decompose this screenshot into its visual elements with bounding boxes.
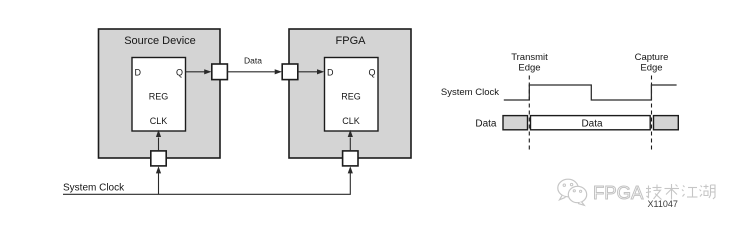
data valid window <box>531 116 651 130</box>
register REG (source) <box>132 58 186 132</box>
watermark text FPGA <box>593 182 644 203</box>
arrow into FPGA clock pad <box>348 166 353 173</box>
svg-text:Data: Data <box>581 118 603 129</box>
System Clock waveform <box>504 85 677 100</box>
svg-text:System Clock: System Clock <box>441 87 499 98</box>
wire clock pad to CLK (FPGA REG) <box>348 130 353 151</box>
figure number X11047 <box>648 199 678 209</box>
dashed marker capture edge <box>651 76 653 153</box>
wire Data between pads <box>227 69 282 74</box>
pin Q (FPGA REG) <box>368 68 375 78</box>
svg-text:Edge: Edge <box>640 63 662 74</box>
wire clock pad to CLK (source REG) <box>156 130 161 151</box>
svg-text:REG: REG <box>341 92 361 102</box>
watermark glyph hu (湖) <box>700 185 716 200</box>
svg-text:FPGA: FPGA <box>336 35 367 47</box>
pin D (source REG) <box>135 68 142 78</box>
svg-text:System Clock: System Clock <box>63 183 125 194</box>
Data valid label <box>581 118 603 129</box>
svg-text:Transmit: Transmit <box>511 52 548 63</box>
data invalid segment (right) <box>654 116 679 130</box>
REG label (FPGA) <box>341 92 361 102</box>
watermark icon chat bubble (small) <box>568 186 586 205</box>
svg-text:Edge: Edge <box>518 63 540 74</box>
register REG (FPGA) <box>325 58 379 132</box>
watermark glyph shu (术) <box>665 184 680 200</box>
svg-text:REG: REG <box>149 92 169 102</box>
data invalid segment (left) <box>503 116 528 130</box>
svg-text:Data: Data <box>475 118 497 129</box>
watermark glyph ji (技) <box>646 185 662 200</box>
svg-text:Capture: Capture <box>635 52 669 63</box>
svg-text:Q: Q <box>176 68 183 78</box>
pin Q (source REG) <box>176 68 183 78</box>
Transmit Edge annotation <box>511 52 548 74</box>
svg-text:CLK: CLK <box>150 116 168 126</box>
System Clock waveform label <box>441 87 499 98</box>
output pad (source device) <box>212 64 228 80</box>
svg-text:Source Device: Source Device <box>124 35 196 47</box>
svg-text:D: D <box>135 68 142 78</box>
svg-text:X11047: X11047 <box>648 199 678 209</box>
svg-text:CLK: CLK <box>342 116 360 126</box>
wire Q output to source output pad <box>186 69 212 74</box>
svg-text:Data: Data <box>244 56 262 66</box>
Source Device label <box>124 35 196 47</box>
wire riser to source clock pad <box>156 166 161 194</box>
Data waveform label <box>475 118 497 129</box>
Source Device block outline <box>99 29 221 158</box>
input pad (FPGA) <box>282 64 298 80</box>
Capture Edge annotation <box>635 52 669 74</box>
dashed marker transmit edge <box>528 76 530 153</box>
FPGA block outline <box>289 29 411 158</box>
clock pad (FPGA) <box>343 151 358 166</box>
svg-text:D: D <box>327 68 334 78</box>
System Clock net wire <box>63 173 350 195</box>
FPGA label <box>336 35 367 47</box>
svg-text:Q: Q <box>368 68 375 78</box>
svg-text:FPGA: FPGA <box>593 182 644 203</box>
wire pad to D input of FPGA REG <box>298 69 325 74</box>
System Clock net label <box>63 183 125 194</box>
Data net label <box>244 56 262 66</box>
watermark glyph jiang (江) <box>682 186 698 198</box>
pin CLK (source REG) <box>150 116 168 126</box>
pin CLK (FPGA REG) <box>342 116 360 126</box>
watermark icon chat bubble (large) <box>558 179 578 200</box>
clock pad (source device) <box>151 151 166 166</box>
REG label (source) <box>149 92 169 102</box>
pin D (FPGA REG) <box>327 68 334 78</box>
